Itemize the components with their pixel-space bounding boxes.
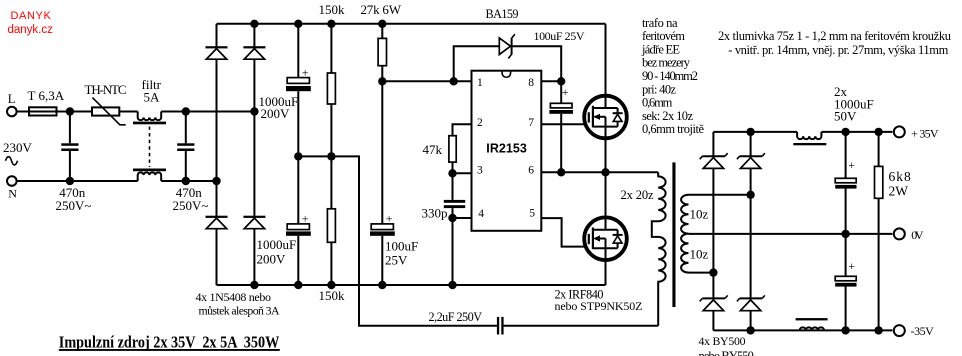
svg-text:+: + (302, 66, 309, 80)
svg-text:150k: 150k (319, 288, 346, 303)
wire D3 to minus bus (216, 229, 218, 285)
svg-text:2x tlumivka 75z 1 - 1,2 mm na: 2x tlumivka 75z 1 - 1,2 mm na feritovém … (718, 29, 952, 43)
svg-text:BA159: BA159 (486, 7, 519, 21)
terminal -35V (894, 324, 934, 338)
svg-text:jádře EE: jádře EE (641, 42, 680, 56)
node pin3 junction (448, 169, 456, 177)
node column2 top bus (250, 20, 258, 28)
svg-text:100uF 25V: 100uF 25V (534, 29, 585, 43)
wire 0V center tap line (689, 233, 893, 235)
svg-text:230V: 230V (3, 140, 33, 155)
svg-text:2x 20z: 2x 20z (621, 188, 654, 202)
node 0V caps junction (841, 230, 849, 238)
wire secondary bottom lead (689, 272, 714, 274)
wire D4 to minus bus (253, 229, 255, 285)
capacitor C10 1000uF 50V bottom (835, 234, 856, 331)
svg-text:150k: 150k (319, 2, 346, 17)
wire D1 to N junction and down (216, 59, 218, 216)
diode column B wires (750, 132, 752, 331)
svg-text:Impulzní zdroj 2x 35V 2x 5A: Impulzní zdroj 2x 35V 2x 5A 350W (59, 332, 279, 351)
wire NTC to filter choke (119, 111, 137, 113)
node bus 27k top (378, 20, 386, 28)
wire choke to bridge (L line) (161, 111, 254, 113)
node 27k Vcc (378, 77, 386, 85)
node bus 150k top (327, 20, 335, 28)
inductor L2 output choke top (793, 132, 826, 145)
node pin8 (557, 77, 565, 85)
svg-text:5: 5 (529, 208, 535, 220)
wire pin4 stub (453, 217, 472, 219)
node 331 minus bus (327, 281, 335, 289)
node half-bridge midpoint (601, 168, 609, 176)
svg-text:- vnitř. pr. 14mm, vněj. pr. 2: - vnitř. pr. 14mm, vněj. pr. 27mm, výška… (728, 43, 948, 57)
capacitor C2 1000uF 200V (257, 156, 311, 285)
capacitor C7 100uF 25V bootstrap (534, 29, 585, 172)
svg-text:pri: 40z: pri: 40z (642, 82, 676, 96)
inductor L3 output choke bottom (796, 318, 828, 330)
svg-text:bez mezery: bez mezery (642, 56, 691, 70)
diode D2 1N5408 (243, 46, 265, 59)
svg-text:10z: 10z (690, 206, 709, 221)
resistor R4 47k (423, 136, 457, 174)
svg-text:200V: 200V (257, 252, 287, 267)
wire plus rail (713, 131, 892, 133)
svg-text:sek: 2x 10z: sek: 2x 10z (642, 109, 693, 123)
svg-text:nebo BY550: nebo BY550 (699, 349, 754, 356)
svg-text:4: 4 (478, 208, 484, 220)
node bus cap1000 top (294, 20, 302, 28)
wire pin3 stub (453, 172, 472, 174)
node L-fuse junction (66, 107, 74, 115)
terminal L (7, 92, 17, 116)
capacitor C9 1000uF 50V top (835, 132, 856, 234)
svg-text:6k8: 6k8 (889, 169, 912, 184)
transistor Q2 IRF840 bottom (555, 172, 643, 313)
wire pin8 stub (541, 80, 561, 82)
wire N line (17, 180, 217, 182)
svg-text:DANYK: DANYK (11, 10, 52, 22)
wire Vcc line pin1 (382, 80, 471, 82)
svg-text:+: + (848, 158, 855, 172)
svg-text:4x BY500: 4x BY500 (699, 334, 746, 348)
svg-text:+: + (386, 212, 393, 226)
svg-text:IR2153: IR2153 (486, 142, 527, 156)
node N-cap2 (182, 177, 190, 185)
IC U1 IR2153 (472, 71, 542, 231)
diode D7 BY500 (700, 295, 728, 310)
svg-text:250V~: 250V~ (173, 198, 209, 213)
node L line at choke out (182, 107, 190, 115)
svg-text:TH-NTC: TH-NTC (85, 82, 127, 97)
terminal N (7, 176, 17, 200)
svg-text:50V: 50V (834, 108, 857, 123)
svg-text:+: + (302, 212, 309, 226)
svg-text:25V: 25V (385, 252, 408, 267)
diode D8 BY500 (737, 295, 765, 310)
diode D4 1N5408 (243, 216, 265, 229)
filter choke L1 bottom winding (133, 169, 166, 182)
resistor R3 27k 6W (361, 2, 402, 82)
diode bridge column 2 wire top (253, 24, 255, 47)
svg-text:1000uF: 1000uF (257, 237, 297, 252)
terminal 0V (894, 228, 924, 242)
svg-text:T 6,3A: T 6,3A (28, 88, 65, 103)
wire D2 through L junction down (253, 59, 255, 216)
capacitor 470n 250V~ #1 (56, 112, 92, 214)
diode D3 1N5408 (206, 216, 228, 229)
svg-text:2W: 2W (889, 184, 909, 199)
svg-text:+ 35V: + 35V (911, 126, 939, 140)
node midpoint 150k (327, 152, 335, 160)
svg-text:27k 6W: 27k 6W (361, 2, 402, 17)
node bootstrap cap VS (557, 168, 565, 176)
filter choke core dashed (149, 127, 151, 168)
svg-text:0,6mm trojitě: 0,6mm trojitě (642, 122, 704, 136)
svg-text:danyk.cz: danyk.cz (8, 24, 54, 36)
node L to bridge column (250, 107, 258, 115)
node BA159 branch (450, 77, 458, 85)
svg-text:100uF: 100uF (385, 238, 418, 253)
AC tilde symbol (6, 157, 18, 165)
wire divider midpoint (298, 156, 497, 325)
diode D1 1N5408 (206, 46, 228, 59)
transformer secondary 2x 10z (681, 195, 708, 273)
svg-text:6: 6 (528, 165, 534, 177)
wire pin5 to gate Q2 (541, 218, 584, 247)
svg-text:90 - 140mm2: 90 - 140mm2 (642, 69, 698, 83)
resistor R2 150k bottom (319, 156, 346, 302)
wire pin6 VS line (541, 171, 658, 173)
transformer TR1 primary 2x 20z (621, 172, 666, 325)
label output diodes (699, 334, 754, 356)
node 100uF bus (378, 281, 386, 289)
svg-text:feritovém: feritovém (642, 29, 685, 43)
capacitor C1 1000uF 200V (259, 24, 311, 157)
title Impulzni zdroj (59, 332, 280, 351)
wire secondary top lead (689, 194, 751, 196)
capacitor C5 2,2uF 250V (429, 310, 659, 335)
node minus rail diode B (746, 326, 754, 334)
label bridge diodes (196, 290, 280, 318)
svg-text:+: + (848, 259, 855, 273)
svg-text:2: 2 (477, 117, 483, 129)
svg-text:47k: 47k (423, 142, 443, 157)
svg-text:N: N (8, 186, 17, 200)
svg-text:nebo STP9NK50Z: nebo STP9NK50Z (555, 299, 643, 313)
diode D6 BY500 (737, 153, 765, 168)
fuse T 6,3A (28, 88, 65, 115)
diode column A wires (712, 132, 714, 331)
thermistor TH-NTC (85, 82, 127, 125)
diode D5 BY500 (700, 153, 728, 168)
node N-cap1 (66, 177, 74, 185)
diode bridge column 1 wire top (216, 24, 218, 47)
node secondary top to diode column B (746, 191, 754, 199)
wire pin2 to 47k (453, 124, 472, 136)
node pin4 junction (448, 214, 456, 222)
svg-text:8: 8 (528, 77, 534, 89)
svg-text:330p: 330p (422, 206, 448, 221)
transistor Q1 IRF840 top (584, 24, 627, 173)
transformer core (672, 162, 675, 307)
capacitor C8 330p (422, 173, 466, 285)
svg-text:+: + (562, 85, 569, 99)
resistor R1 150k top (319, 2, 346, 157)
svg-text:0V: 0V (911, 228, 924, 242)
wire pin7 to gate Q1 (541, 123, 584, 125)
node minus rail cap (841, 326, 849, 334)
node minus rail 6k8 (874, 326, 882, 334)
svg-text:-35V: -35V (911, 324, 935, 338)
svg-text:250V~: 250V~ (56, 198, 92, 213)
svg-text:2,2uF 250V: 2,2uF 250V (429, 310, 483, 324)
note transformer spec (641, 16, 704, 136)
filter choke L1 top winding (filtr 5A) (133, 77, 166, 124)
wire minus bus (217, 284, 606, 286)
resistor R5 6k8 2W (875, 132, 912, 331)
wire minus rail (713, 329, 892, 331)
node 298 minus bus (294, 281, 302, 289)
node plus rail diode B (746, 128, 754, 136)
svg-text:1: 1 (477, 77, 483, 89)
svg-text:0,6mm: 0,6mm (642, 96, 673, 110)
svg-text:5A: 5A (144, 90, 161, 105)
svg-text:trafo na: trafo na (642, 16, 678, 30)
wire L to fuse (17, 111, 29, 113)
capacitor C6 100uF 25V (370, 81, 418, 285)
svg-text:můstek alespoň 3A: můstek alespoň 3A (199, 304, 280, 318)
node secondary bottom to diode column A (709, 268, 717, 276)
svg-text:4x 1N5408 nebo: 4x 1N5408 nebo (196, 290, 272, 304)
label output caps (834, 84, 874, 123)
node midpoint cap (294, 152, 302, 160)
node plus rail 6k8 (874, 128, 882, 136)
capacitor 470n 250V~ #2 (173, 112, 209, 214)
svg-text:7: 7 (528, 117, 534, 129)
diode D9 BA159 bootstrap (454, 7, 562, 81)
svg-text:200V: 200V (261, 106, 291, 121)
svg-text:L: L (8, 92, 16, 106)
svg-text:3: 3 (477, 165, 483, 177)
node N to bridge column (212, 177, 220, 185)
svg-text:10z: 10z (690, 247, 709, 262)
wire fuse to NTC (57, 111, 93, 113)
node 330p ground bus (448, 281, 456, 289)
wire plus bus (217, 23, 606, 25)
node column2 minus bus (250, 281, 258, 289)
node plus rail cap (841, 128, 849, 136)
terminal +35V (894, 126, 939, 140)
